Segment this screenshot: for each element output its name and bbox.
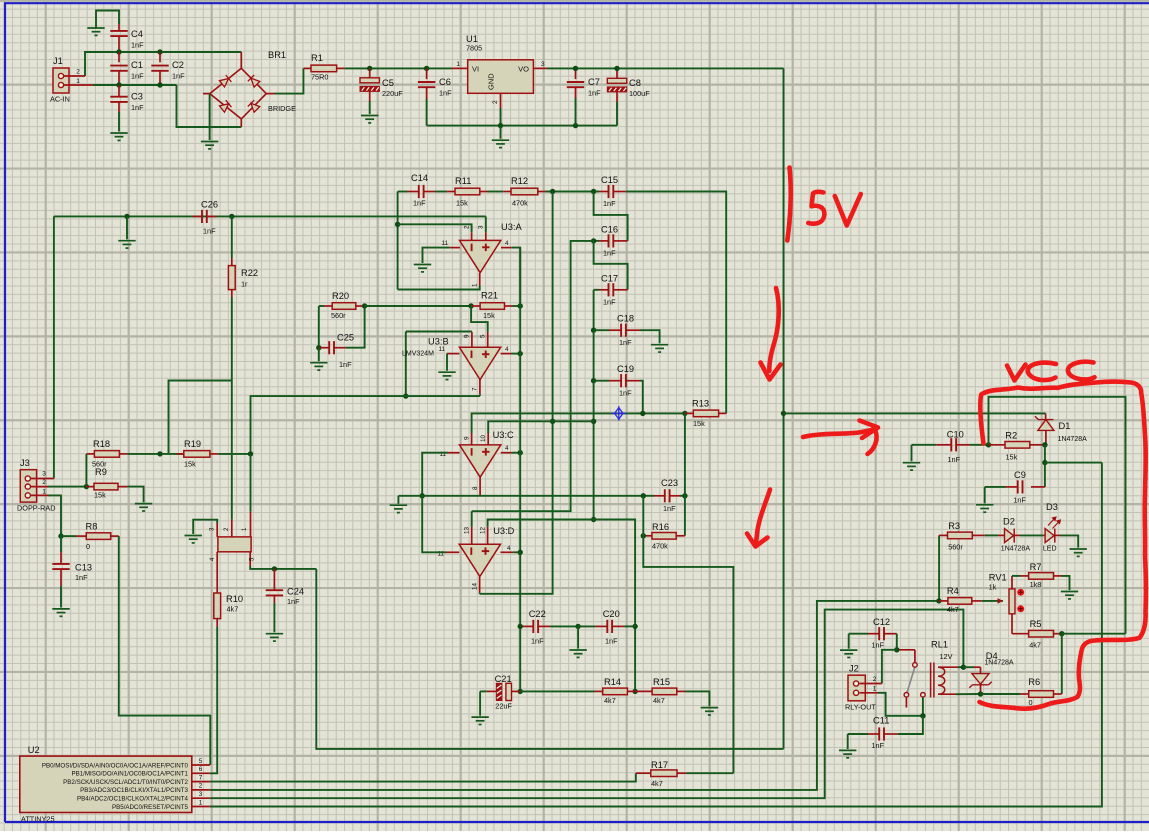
wire (C26 net to pin3) xyxy=(485,216,487,232)
ground (R7) xyxy=(1061,592,1078,599)
svg-text:15k: 15k xyxy=(184,460,196,469)
svg-text:PB2/SCK/USCK/SCL/ADC1/T0/INT0/: PB2/SCK/USCK/SCL/ADC1/T0/INT0/PCINT2 xyxy=(63,779,188,786)
node xyxy=(395,222,400,227)
svg-text:C3: C3 xyxy=(131,92,143,102)
svg-text:C6: C6 xyxy=(439,77,451,87)
pin 11 xyxy=(446,551,459,553)
svg-text:C20: C20 xyxy=(603,609,620,619)
capacitor C7 xyxy=(575,68,577,79)
ground (under C24) xyxy=(266,634,283,641)
node xyxy=(591,419,596,424)
svg-text:PB4/ADC2/OC1B/CLKO/XTAL2/PCINT: PB4/ADC2/OC1B/CLKO/XTAL2/PCINT4 xyxy=(77,796,189,803)
svg-text:1nF: 1nF xyxy=(287,597,300,606)
wire (C15 to R13) xyxy=(626,192,726,414)
svg-text:C22: C22 xyxy=(529,609,546,619)
svg-text:1k: 1k xyxy=(989,583,997,592)
wire (VCC feed) xyxy=(784,412,1046,414)
svg-text:R15: R15 xyxy=(653,677,670,687)
svg-text:15k: 15k xyxy=(483,311,495,320)
pin 13 xyxy=(471,527,473,544)
svg-text:RLY-OUT: RLY-OUT xyxy=(845,703,876,712)
svg-text:100uF: 100uF xyxy=(629,89,650,98)
pin 10 xyxy=(487,433,489,445)
node xyxy=(591,378,596,383)
svg-text:C18: C18 xyxy=(617,314,634,324)
wire xyxy=(513,305,521,307)
svg-text:R16: R16 xyxy=(652,522,669,532)
svg-text:C17: C17 xyxy=(601,274,618,284)
wire xyxy=(958,666,963,668)
wire xyxy=(896,634,898,650)
svg-text:1nF: 1nF xyxy=(172,72,185,81)
capacitor C12 xyxy=(849,633,868,635)
node xyxy=(157,82,162,87)
node xyxy=(573,123,578,128)
wire xyxy=(118,112,120,132)
node xyxy=(157,451,162,456)
ground (C18) xyxy=(651,345,668,352)
wire (to C11) xyxy=(898,716,923,734)
resonator X1 xyxy=(218,537,251,552)
svg-text:C8: C8 xyxy=(629,78,641,88)
wire xyxy=(397,496,399,504)
wire (R5 down to R6) xyxy=(1061,634,1063,694)
wire xyxy=(1062,576,1070,590)
node xyxy=(424,66,429,71)
svg-text:C2: C2 xyxy=(172,60,184,70)
wire xyxy=(369,101,371,114)
node xyxy=(367,66,372,71)
svg-text:1: 1 xyxy=(456,61,460,68)
mcu U2 ATTINY25 xyxy=(20,756,192,812)
wire xyxy=(520,690,594,692)
wire (J2 pin1 net) xyxy=(878,693,923,716)
wire xyxy=(471,511,473,527)
resistor R20 xyxy=(319,305,324,307)
svg-text:1: 1 xyxy=(76,78,80,85)
node xyxy=(124,214,129,219)
svg-text:4: 4 xyxy=(505,240,509,247)
wire xyxy=(96,11,119,29)
svg-text:1: 1 xyxy=(873,685,877,692)
diode D1 1N4728A xyxy=(1045,413,1047,419)
svg-text:22uF: 22uF xyxy=(495,702,512,711)
node xyxy=(640,411,645,416)
wire xyxy=(177,85,242,127)
pin 2 xyxy=(471,232,473,240)
resistor R1 xyxy=(303,67,311,69)
svg-text:470k: 470k xyxy=(652,542,668,551)
wire xyxy=(981,693,1021,695)
node xyxy=(641,493,646,498)
svg-text:1nF: 1nF xyxy=(131,41,144,50)
wire xyxy=(512,353,521,355)
resistor R4 xyxy=(939,600,948,602)
node xyxy=(362,303,367,308)
wire (R16 left to R17) xyxy=(643,536,733,773)
capacitor C17 xyxy=(599,289,609,291)
annotation stroke (5V bar) xyxy=(787,168,790,241)
wire (R13 left rail down) xyxy=(684,413,686,535)
svg-text:PB3/ADC3/OC1B/CLKI/XTAL1/PCINT: PB3/ADC3/OC1B/CLKI/XTAL1/PCINT3 xyxy=(80,787,188,794)
svg-text:12V: 12V xyxy=(940,652,953,661)
node xyxy=(591,517,596,522)
wire xyxy=(318,348,320,362)
svg-text:R9: R9 xyxy=(95,467,107,477)
wire (U3:B pin9 net) xyxy=(406,331,472,333)
ground (under C13) xyxy=(52,609,69,616)
wire xyxy=(209,94,211,140)
wire (pin12 net) xyxy=(488,520,635,692)
resistor R15 xyxy=(635,690,652,692)
ground (D3) xyxy=(1070,549,1087,556)
svg-text:4k7: 4k7 xyxy=(604,696,616,705)
svg-text:U3:D: U3:D xyxy=(493,526,514,536)
wire xyxy=(575,98,577,126)
svg-text:5: 5 xyxy=(199,758,203,765)
wire (U2 pin7 to R17) xyxy=(210,773,636,781)
svg-text:U3:C: U3:C xyxy=(493,430,514,440)
svg-text:C5: C5 xyxy=(382,78,394,88)
svg-text:R22: R22 xyxy=(241,268,258,278)
node xyxy=(84,484,89,489)
svg-text:1nF: 1nF xyxy=(439,89,452,98)
capacitor C24 xyxy=(273,569,275,590)
node xyxy=(518,550,523,555)
wire xyxy=(512,452,521,454)
wire (J3 pin1 down) xyxy=(48,495,61,536)
svg-text:R12: R12 xyxy=(511,176,528,186)
wire xyxy=(847,734,849,749)
wire xyxy=(318,306,320,348)
wire xyxy=(963,666,974,668)
resistor R2 xyxy=(989,444,1006,446)
svg-text:7805: 7805 xyxy=(466,44,482,53)
wire xyxy=(60,586,62,608)
svg-text:1nF: 1nF xyxy=(948,455,961,464)
pin 14 xyxy=(479,577,481,593)
wire xyxy=(594,240,599,242)
wire (U2 pin1 long run) xyxy=(210,463,1102,807)
relay RL1 xyxy=(931,663,945,698)
svg-text:R5: R5 xyxy=(1030,619,1042,629)
svg-text:R8: R8 xyxy=(86,522,98,532)
resistor R12 xyxy=(503,191,511,193)
wire xyxy=(422,496,446,553)
svg-text:R20: R20 xyxy=(332,291,349,301)
capacitor C5 (electrolytic) xyxy=(369,68,371,77)
pin 11 xyxy=(448,452,460,454)
svg-text:C13: C13 xyxy=(75,563,92,573)
wire xyxy=(577,626,579,648)
diode D4 1N4728A xyxy=(974,666,981,668)
capacitor C16 xyxy=(599,240,609,242)
node xyxy=(573,66,578,71)
svg-text:0: 0 xyxy=(86,542,90,551)
ground (under C25) xyxy=(310,363,327,370)
wire xyxy=(1044,445,1046,463)
svg-text:U1: U1 xyxy=(466,34,478,44)
wire (to U3:A pin2) xyxy=(398,224,472,232)
wire xyxy=(593,290,595,330)
wire xyxy=(911,445,913,462)
wire (R21 left to U3:B pin5) xyxy=(471,306,488,332)
svg-text:3: 3 xyxy=(42,471,46,478)
node xyxy=(116,49,121,54)
svg-text:C15: C15 xyxy=(601,175,618,185)
svg-text:7: 7 xyxy=(472,387,479,391)
wire xyxy=(550,625,578,627)
pin 11 xyxy=(450,247,460,249)
wire (main mixed net) xyxy=(472,413,685,433)
svg-text:C9: C9 xyxy=(1014,470,1026,480)
resistor R8 xyxy=(61,535,76,537)
node xyxy=(420,493,425,498)
svg-text:7: 7 xyxy=(199,774,203,781)
capacitor C1 xyxy=(118,52,120,62)
svg-text:1nF: 1nF xyxy=(131,103,144,112)
node xyxy=(518,450,523,455)
node xyxy=(682,411,687,416)
wire (VCC loop) xyxy=(989,397,1126,634)
pin 8 xyxy=(479,477,481,496)
svg-text:R7: R7 xyxy=(1030,562,1042,572)
wire (AC bottom rail) xyxy=(93,84,177,86)
wire (to J2 pin2) xyxy=(882,650,897,684)
node xyxy=(920,713,925,718)
svg-text:C7: C7 xyxy=(588,77,600,87)
node xyxy=(518,689,523,694)
capacitor C3 xyxy=(118,85,120,97)
ground (C12) xyxy=(840,650,857,657)
connector J1 xyxy=(53,68,69,93)
wire (C15 left jog to C16 right) xyxy=(594,192,628,241)
svg-text:1nF: 1nF xyxy=(619,389,632,398)
svg-text:1r: 1r xyxy=(241,280,248,289)
svg-text:11: 11 xyxy=(438,346,445,353)
wire (C16 left to U3:D pin13 long rail) xyxy=(472,241,594,511)
svg-text:R6: R6 xyxy=(1028,677,1040,687)
svg-text:12: 12 xyxy=(479,526,486,534)
svg-text:C24: C24 xyxy=(287,587,304,597)
svg-text:U3:A: U3:A xyxy=(501,222,522,232)
ground (C22/C20) xyxy=(569,650,586,657)
capacitor C8 (electrolytic) xyxy=(616,68,618,78)
resistor R7 xyxy=(1021,575,1029,577)
wire xyxy=(435,191,447,193)
wire (R20/R21 net) xyxy=(365,305,472,307)
svg-text:4k7: 4k7 xyxy=(227,605,239,614)
svg-text:C21: C21 xyxy=(495,674,512,684)
svg-text:R11: R11 xyxy=(455,176,471,186)
capacitor C21 (electrolytic) xyxy=(480,690,487,692)
capacitor C15 xyxy=(599,191,609,193)
resistor R19 xyxy=(177,453,184,455)
connector J2 xyxy=(848,675,865,701)
svg-text:C14: C14 xyxy=(411,173,428,183)
pin 5 xyxy=(487,332,489,348)
svg-text:15k: 15k xyxy=(456,199,468,208)
wire xyxy=(686,772,733,774)
wire (U3:B output to R19 node) xyxy=(251,396,480,454)
wire xyxy=(127,453,183,455)
wire xyxy=(642,496,644,536)
ground (under U1) xyxy=(492,140,509,147)
svg-text:10: 10 xyxy=(480,434,487,442)
wire xyxy=(127,487,143,503)
capacitor C23 xyxy=(643,495,654,497)
svg-text:D2: D2 xyxy=(1003,517,1015,527)
wire xyxy=(398,191,408,193)
svg-text:C10: C10 xyxy=(947,430,964,440)
svg-text:4: 4 xyxy=(505,346,509,353)
node xyxy=(229,214,234,219)
capacitor C4 xyxy=(118,24,120,31)
svg-text:1: 1 xyxy=(42,489,46,496)
wire xyxy=(985,534,998,536)
svg-text:13: 13 xyxy=(463,526,470,534)
wire xyxy=(446,354,448,371)
svg-text:R10: R10 xyxy=(226,594,243,604)
wire xyxy=(685,691,709,706)
wire xyxy=(500,126,502,139)
node xyxy=(1042,460,1047,465)
svg-text:4: 4 xyxy=(507,545,511,552)
wire xyxy=(624,625,635,627)
wire (U2 pin2 to R4 net) xyxy=(210,601,939,790)
svg-text:U2: U2 xyxy=(28,745,40,755)
annotation arrow (right) xyxy=(803,429,877,437)
pin 12 xyxy=(487,527,489,544)
wire xyxy=(426,99,428,126)
svg-text:1N4728A: 1N4728A xyxy=(1001,546,1031,553)
svg-text:AC-IN: AC-IN xyxy=(50,95,70,104)
svg-text:GND: GND xyxy=(487,73,496,90)
resistor R18 xyxy=(86,453,94,455)
capacitor C9 xyxy=(1044,463,1046,487)
op-amp U3:B xyxy=(459,347,500,379)
svg-text:14: 14 xyxy=(471,582,478,590)
resistor R6 xyxy=(1020,693,1029,695)
svg-text:R14: R14 xyxy=(604,677,621,687)
wire (C14 feedback left leg) xyxy=(397,192,399,290)
svg-text:220uF: 220uF xyxy=(382,89,403,98)
capacitor C14 xyxy=(408,191,419,193)
svg-text:4k7: 4k7 xyxy=(1029,641,1041,650)
svg-text:J3: J3 xyxy=(20,458,30,468)
ground (R15) xyxy=(701,708,718,715)
wire (R8 to U2 pin5) xyxy=(119,536,211,765)
wire xyxy=(1020,534,1043,536)
svg-text:C11: C11 xyxy=(873,716,889,726)
svg-text:6: 6 xyxy=(199,766,203,773)
annotation text VCC xyxy=(1007,365,1026,381)
capacitor C10 xyxy=(912,444,937,446)
svg-text:1N4728A: 1N4728A xyxy=(984,660,1014,667)
svg-text:R4: R4 xyxy=(947,586,959,596)
wire (5V vertical rail) xyxy=(783,68,785,749)
wire xyxy=(594,289,599,291)
node xyxy=(403,393,408,398)
svg-text:C4: C4 xyxy=(131,29,143,39)
wire xyxy=(479,691,481,715)
svg-text:3: 3 xyxy=(541,61,545,68)
node xyxy=(591,328,596,333)
svg-text:C16: C16 xyxy=(601,225,618,235)
marker dot (RV1 top) xyxy=(1017,589,1024,596)
node xyxy=(518,303,523,308)
wire (chain down) xyxy=(593,381,595,520)
capacitor C26 xyxy=(193,215,203,217)
node xyxy=(550,189,555,194)
svg-text:1nF: 1nF xyxy=(339,360,352,369)
svg-text:C19: C19 xyxy=(617,364,634,374)
svg-text:J1: J1 xyxy=(53,56,63,66)
resistor R16 xyxy=(643,535,652,537)
svg-text:4: 4 xyxy=(505,445,509,452)
node xyxy=(641,533,646,538)
ground (rail) xyxy=(390,505,407,512)
ground (under C3) xyxy=(110,133,127,140)
capacitor C20 xyxy=(578,625,595,627)
wire (C16 left jog to C17 right) xyxy=(594,241,628,290)
svg-text:1: 1 xyxy=(199,799,203,806)
wire (R5 to VCC loop) xyxy=(1062,633,1126,635)
svg-text:U3:B: U3:B xyxy=(428,337,449,347)
capacitor C19 xyxy=(594,380,609,382)
node xyxy=(936,598,941,603)
svg-text:R21: R21 xyxy=(481,291,498,301)
capacitor C13 xyxy=(60,536,62,552)
svg-text:1nF: 1nF xyxy=(1013,496,1026,505)
node xyxy=(986,442,991,447)
resistor R3 xyxy=(938,535,940,601)
svg-text:1nF: 1nF xyxy=(203,227,216,236)
node xyxy=(961,665,966,670)
wire (to right rail) xyxy=(1045,462,1102,464)
ground (under C5) xyxy=(361,116,378,123)
svg-text:1nF: 1nF xyxy=(605,637,618,646)
svg-text:D3: D3 xyxy=(1046,502,1058,512)
node xyxy=(316,345,321,350)
capacitor C25 xyxy=(319,347,329,349)
svg-text:1nF: 1nF xyxy=(663,504,676,513)
wire (U3:D out rail) xyxy=(480,192,553,594)
node xyxy=(58,533,63,538)
svg-text:2: 2 xyxy=(199,783,203,790)
svg-text:1nF: 1nF xyxy=(531,637,544,646)
potentiometer RV1 xyxy=(982,600,1003,602)
resistor R21 xyxy=(471,305,480,307)
svg-text:1nF: 1nF xyxy=(872,741,885,750)
wire (R22 to resonator pin2) xyxy=(231,297,233,520)
wire xyxy=(984,487,986,504)
annotation outline (VCC region) xyxy=(980,382,1146,709)
svg-text:C26: C26 xyxy=(201,200,218,210)
svg-text:2: 2 xyxy=(463,225,470,229)
wire xyxy=(218,453,250,455)
node xyxy=(614,66,619,71)
wire (R10 to U2 pin6) xyxy=(210,626,217,773)
ground (C9) xyxy=(976,505,993,512)
pin 11 xyxy=(447,353,459,355)
bridge rectifier BR1 xyxy=(210,68,266,119)
ground (under bridge) xyxy=(201,142,218,149)
pin 4 xyxy=(501,452,512,454)
svg-text:PB0/MOSI/DI/SDA/AIN0/OC0A/OC1A: PB0/MOSI/DI/SDA/AIN0/OC0A/OC1A/AREF/PCIN… xyxy=(42,762,189,769)
svg-text:BR1: BR1 xyxy=(268,50,286,60)
node xyxy=(1059,631,1064,636)
